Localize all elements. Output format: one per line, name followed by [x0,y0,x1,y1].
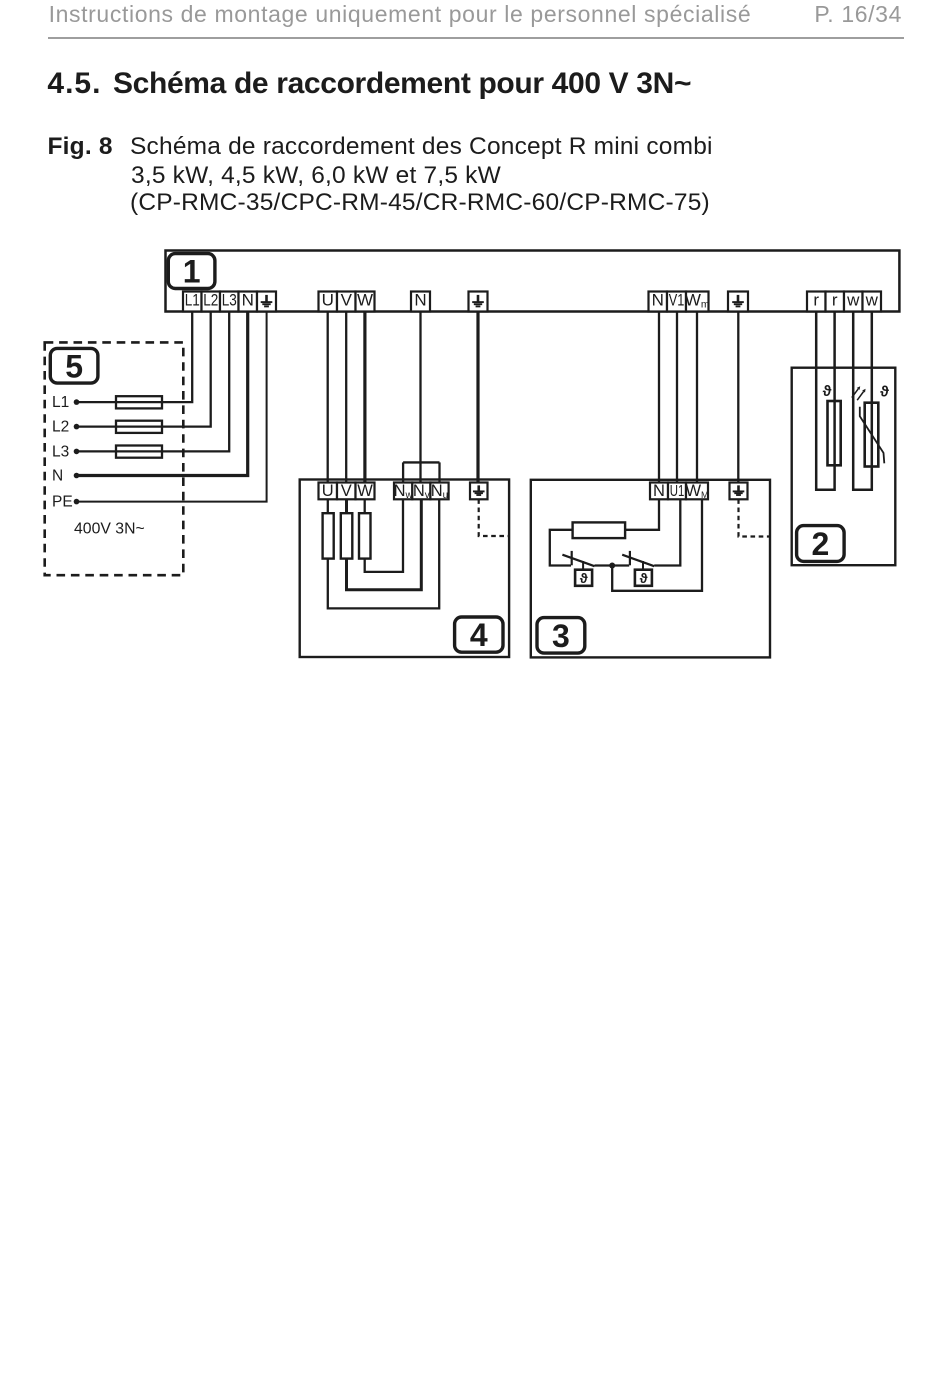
svg-text:ϑ: ϑ [580,571,588,586]
temperature sensor 1 [828,401,841,465]
svg-text:L3: L3 [222,290,237,309]
svg-text:V: V [341,290,353,309]
wire switch2 to U1 [654,499,680,565]
svg-text:2: 2 [811,526,829,562]
svg-text:N: N [242,290,254,309]
terminal Wm top [685,290,710,311]
terminal Wm limiter [685,482,708,500]
svg-text:W: W [357,290,373,309]
ground terminal heater [470,483,488,500]
sensor box 2 [792,368,896,566]
svg-text:r: r [832,290,838,309]
svg-text:N: N [652,290,664,309]
terminal w 2 [863,290,882,311]
wire element W to Nw [364,499,366,513]
resistor limiter [573,522,626,538]
wire element V to Nv (bold) [345,499,348,513]
temperature sensor 2 (NTC) [865,403,879,467]
terminal V1 [667,290,686,311]
wire V phase [345,312,347,483]
ground terminal limiter feed [728,292,748,312]
ground terminal heater feed [469,292,488,312]
svg-text:ϑ: ϑ [880,384,889,401]
svg-text:N: N [653,482,665,500]
wire PE supply [77,312,267,502]
svg-text:PE: PE [52,494,73,511]
svg-text:U1: U1 [670,483,685,500]
ground terminal mains [257,292,276,312]
ground terminal limiter [730,483,748,500]
wire w sensor 2 [853,312,872,490]
wire resistor to switch 1 [550,530,573,566]
thermal actuator 2 [642,561,644,570]
supply box 5 (dashed) [45,342,184,575]
svg-text:1: 1 [183,254,201,290]
svg-text:L3: L3 [52,444,69,461]
junction dot L2 [74,424,80,430]
terminal W heater [356,482,375,500]
terminal N limiter [650,482,668,500]
terminal L1 [183,290,202,311]
terminal W [356,290,375,311]
fuse L3 [116,446,162,458]
controller box 1 [166,251,900,312]
svg-text:5: 5 [65,348,83,384]
label 1 controller [168,254,215,290]
terminal Nv [412,482,430,501]
wire switch1 to junction [595,564,613,566]
svg-text:4: 4 [470,617,488,653]
svg-text:400V 3N~: 400V 3N~ [74,520,145,537]
svg-text:N: N [414,290,426,309]
heating element U [323,513,334,558]
wire L2 supply [77,312,211,427]
junction dot N [74,473,80,479]
wire N supply (bold) [77,312,248,476]
wire L1 supply [77,312,193,403]
label 5 supply [50,348,98,384]
wire V1 [676,312,678,483]
thermal switch 2 [629,551,631,565]
svg-text:3: 3 [552,618,570,654]
junction dot switches [609,563,615,569]
fuse L2 [116,421,162,433]
wire PE to heater (bold) [476,312,479,483]
svg-text:U: U [322,482,334,500]
svg-text:L1: L1 [52,394,69,411]
terminal N heater feed [411,290,430,311]
terminal U [319,290,338,311]
svg-text:L2: L2 [203,290,218,309]
svg-text:V: V [341,482,352,500]
terminal U1 [668,483,686,501]
svg-text:ϑ: ϑ [640,571,648,586]
label 3 limiter [537,618,585,654]
wire N to heater, branch bar [419,312,421,483]
wire U phase [327,312,329,483]
svg-text:w: w [846,290,860,309]
junction dot L1 [74,399,80,405]
terminal N limiter feed [649,290,668,311]
terminal U heater [319,482,338,500]
svg-text:L2: L2 [52,419,69,436]
terminal N mains [239,290,258,311]
terminal r 2 [826,290,845,311]
terminal Nu [430,482,448,501]
wire r sensor 1 [816,312,834,490]
svg-text:W: W [357,482,373,500]
sensor arrows [852,386,866,400]
junction dot PE [74,499,80,505]
svg-text:U: U [322,290,334,309]
terminal L3 [220,290,239,311]
wire element U to Nu [327,499,329,513]
wire Wm [696,312,698,483]
wire N to limiter [658,312,660,483]
thermal switch 1 [571,551,573,565]
wire junction to Wm [612,499,702,591]
dashed PE inside heater [479,499,509,536]
svg-text:ϑ: ϑ [823,383,832,400]
svg-text:N: N [52,468,63,485]
terminal V [337,290,356,311]
svg-text:r: r [813,290,819,309]
wire junction to switch 2 [612,564,629,566]
NTC diagonal [860,407,885,464]
wire L3 supply [77,312,230,452]
junction dot L3 [74,449,80,455]
fuse L1 [116,396,162,408]
terminal w 1 [844,290,863,311]
terminal r 1 [807,290,826,311]
svg-text:w: w [865,290,879,309]
terminal Nw [394,482,414,501]
label 4 heater [455,617,503,653]
terminal V heater [337,482,356,500]
wire N to resistor [625,499,659,530]
svg-text:V1: V1 [669,290,685,309]
wire PE to limiter [737,312,739,483]
terminal L2 [202,290,221,311]
svg-text:L1: L1 [185,290,200,309]
heating element V [341,513,353,558]
dashed PE inside limiter [739,499,771,536]
thermal actuator 1 [582,561,584,570]
heater box 4 [300,480,509,658]
label 2 sensors [797,526,845,563]
limiter box 3 [531,480,770,658]
heating element W [359,513,371,558]
wire W phase (bold) [363,312,366,483]
